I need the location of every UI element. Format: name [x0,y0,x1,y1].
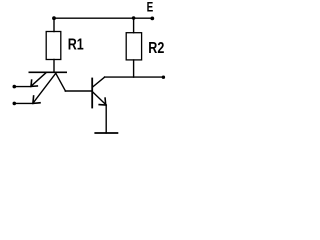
wire R2 to collector rail [133,60,135,77]
node junction at R2 top [132,16,136,20]
svg-text:E: E [147,0,154,15]
ground [95,132,117,134]
resistor R2 [126,33,141,60]
transistor Q2 emitter [93,92,107,105]
wire Q1 collector to Q2 base [65,90,91,92]
resistor R1 [46,32,61,60]
node terminal E dot [150,17,154,21]
wire top supply rail [54,17,152,19]
transistor Q2 collector [93,77,105,87]
wire R1 to Q1 base [53,60,55,73]
wire input 1 [14,86,31,88]
node input terminal 1 [13,85,17,89]
transistor Q2 base bar [91,79,93,108]
node input terminal 2 [13,102,17,106]
node junction at R1 top [52,16,56,20]
transistor Q1 collector [56,73,66,91]
wire Q2 emitter to ground [105,105,107,133]
wire collector rail [105,76,164,78]
wire R2 to rail [133,18,135,33]
transistor Q1 emitter 1 [31,73,46,86]
svg-text:R1: R1 [68,37,84,54]
transistor Q1 multi-emitter base bar [29,71,66,73]
wire input 2 [14,102,33,104]
transistor Q1 emitter 2 [33,73,56,103]
svg-text:R2: R2 [148,40,164,57]
node collector rail end dot [162,76,165,79]
wire R1 to rail [53,18,55,31]
